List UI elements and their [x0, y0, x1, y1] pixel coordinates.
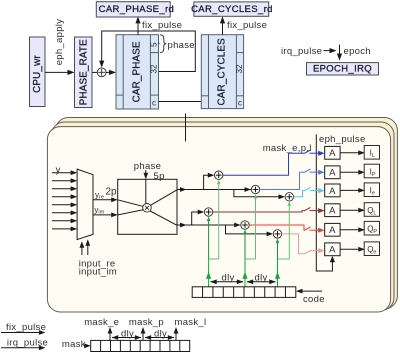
wire I3 to A3 (cyan) — [294, 187, 325, 196]
block CAR_PHASE — [116, 35, 159, 109]
svg-text:dly: dly — [255, 273, 268, 284]
Q branch to adder L — [226, 225, 274, 236]
wire code P to adder I2 — [254, 194, 258, 259]
arrow fix_pulse — [1, 330, 45, 335]
adder (+) — [97, 68, 106, 77]
code tap E stub — [206, 259, 211, 287]
output register QP — [364, 221, 379, 235]
wire multiplier to I out — [151, 190, 178, 206]
svg-text:eph_apply: eph_apply — [54, 19, 65, 66]
adder Q3 — [273, 230, 281, 238]
svg-text:code: code — [303, 294, 325, 305]
feedback wire 32 to adder — [99, 31, 195, 72]
svg-text:A: A — [329, 168, 336, 179]
wire y_re into mixer — [93, 197, 118, 202]
arrow mask into register — [84, 343, 91, 348]
svg-text:c: c — [152, 98, 156, 107]
adder I3 — [285, 193, 293, 201]
code delay measure E-P — [210, 279, 243, 284]
svg-text:dly: dly — [154, 329, 167, 340]
accumulator A6 — [325, 243, 340, 256]
output register Qe — [364, 242, 379, 256]
I branch to adder E — [204, 173, 215, 190]
svg-text:CAR_PHASE_rd: CAR_PHASE_rd — [99, 4, 174, 15]
input_re arrow — [80, 241, 85, 255]
svg-text:CAR_CYCLES_rd: CAR_CYCLES_rd — [191, 4, 273, 15]
svg-text:5: 5 — [150, 42, 159, 47]
block CAR_CYCLES — [201, 35, 244, 109]
svg-text:y: y — [56, 164, 61, 175]
svg-text:A: A — [329, 225, 336, 236]
code tap P jog — [245, 258, 256, 260]
block EPOCH_IRQ — [307, 63, 379, 75]
code tap L jog — [278, 258, 290, 260]
arrow phase down — [143, 170, 148, 179]
wire code E to adder Q1 — [207, 217, 211, 260]
wire A4 to QL — [340, 208, 365, 213]
y input bus arrows — [52, 170, 77, 231]
block CAR_CYCLES_rd — [191, 2, 273, 16]
svg-text:phase: phase — [168, 40, 195, 51]
wire code P to adder Q2 — [243, 230, 247, 260]
svg-text:c: c — [238, 98, 242, 107]
svg-text:dly: dly — [222, 273, 235, 284]
svg-text:A: A — [329, 206, 336, 217]
I wire main — [177, 187, 251, 192]
adder Q2 — [241, 221, 249, 229]
svg-text:mask_e,p,l: mask_e,p,l — [263, 143, 312, 154]
Q wire main — [177, 223, 241, 228]
wire code L to adder I3 — [288, 201, 292, 259]
wire c port CAR_PHASE to CAR_CYCLES — [159, 101, 202, 103]
code tap L stub — [275, 259, 280, 287]
output register QL — [364, 203, 379, 217]
wire I2 to A2 (medium blue) — [260, 169, 325, 190]
wire A3 to Ie — [340, 188, 365, 193]
wire Q1 to A4 (maroon) — [213, 207, 325, 213]
code delay measure P-L — [247, 279, 276, 284]
block CPU_wr — [30, 37, 46, 107]
svg-text:mask_p: mask_p — [129, 317, 164, 328]
mask shift register — [91, 340, 190, 351]
wire A5 to QP — [340, 227, 365, 232]
wire code input — [296, 289, 322, 294]
accumulator A1 — [325, 146, 340, 159]
output register IL — [364, 146, 379, 160]
wire fix_pulse up to CAR_PHASE_rd — [135, 16, 140, 34]
wire A1 to IL — [340, 150, 365, 155]
code tap E jog — [209, 258, 219, 260]
card front — [47, 127, 390, 312]
wire Q2 to A5 (red) — [249, 225, 324, 233]
wire A2 to IP — [340, 170, 365, 175]
svg-text:input_im: input_im — [79, 267, 117, 278]
adder I2 — [251, 185, 259, 193]
multiplier — [143, 204, 152, 213]
accumulator A3 — [325, 184, 340, 197]
wire im into multiplier — [118, 210, 143, 215]
brace and label phase (5-bit port) — [159, 35, 195, 53]
card back — [55, 118, 397, 309]
mask delay measure E-P — [112, 335, 142, 340]
adder Q1 — [204, 208, 212, 216]
arrow irq_pulse — [1, 345, 45, 350]
wire I1 to A1 (blue) — [223, 150, 325, 175]
svg-text:32: 32 — [235, 64, 244, 73]
svg-text:A: A — [329, 245, 336, 256]
svg-text:CAR_PHASE: CAR_PHASE — [131, 41, 142, 102]
wire code E to adder I1 — [217, 180, 221, 259]
svg-text:fix_pulse: fix_pulse — [142, 20, 182, 31]
wire re into multiplier — [118, 200, 143, 207]
mask tap L arrow — [174, 327, 179, 340]
svg-text:A: A — [329, 148, 336, 159]
wire epoch down into EPOCH_IRQ — [337, 45, 342, 61]
Q branch to adder E — [192, 210, 205, 225]
wire phase to multiplier — [145, 179, 147, 203]
svg-text:CAR_CYCLES: CAR_CYCLES — [217, 38, 228, 106]
svg-text:eph_pulse: eph_pulse — [319, 134, 366, 145]
wire phase into correlator card — [185, 114, 187, 142]
wire y_im into mixer — [93, 213, 118, 218]
mask delay measure P-L — [145, 335, 175, 340]
card middle — [51, 122, 394, 311]
wire PHASE_RATE to adder — [92, 71, 97, 73]
svg-text:PHASE_RATE: PHASE_RATE — [79, 39, 90, 105]
wire CPU_wr to PHASE_RATE — [45, 70, 75, 75]
svg-text:2p: 2p — [106, 187, 118, 198]
I branch to adder L — [234, 190, 285, 200]
accumulator A5 — [325, 223, 340, 236]
mask tap E arrow — [108, 327, 113, 340]
svg-text:mask_l: mask_l — [175, 317, 207, 328]
wire A6 to Qe — [340, 247, 365, 252]
block PHASE_RATE — [75, 37, 93, 108]
svg-text:EPOCH_IRQ: EPOCH_IRQ — [313, 64, 372, 75]
wire multiplier to Q out — [150, 211, 177, 225]
wire irq_pulse to epoch node — [324, 48, 337, 53]
adder I1 — [215, 171, 223, 179]
svg-text:dly: dly — [121, 329, 134, 340]
svg-text:5p: 5p — [154, 171, 165, 182]
svg-text:irq_pulse: irq_pulse — [281, 46, 322, 57]
wire Q3 to A6 (pink) — [282, 234, 325, 254]
accumulator A2 — [325, 166, 340, 179]
block CAR_PHASE_rd — [96, 2, 174, 17]
mask tap P arrow — [141, 327, 146, 340]
input mux trapezoid — [77, 169, 93, 240]
svg-text:fix_pulse: fix_pulse — [227, 20, 267, 31]
svg-text:CPU_wr: CPU_wr — [32, 55, 43, 93]
mixer box — [118, 179, 177, 234]
accumulator A4 — [325, 204, 340, 217]
output register Ie — [364, 183, 379, 197]
input_im arrow — [85, 239, 90, 255]
svg-text:32: 32 — [150, 64, 159, 73]
wire fix_pulse up to CAR_CYCLES_rd — [220, 16, 225, 34]
svg-text:mask_e: mask_e — [84, 317, 119, 328]
svg-text:mask: mask — [62, 339, 86, 350]
output register IP — [364, 164, 379, 178]
svg-text:epoch: epoch — [344, 46, 371, 57]
wire adder to CAR_PHASE — [106, 70, 116, 75]
code shift register — [192, 287, 296, 298]
wire eph_pulse down to A6 — [316, 134, 335, 271]
wire code L to adder Q3 — [276, 238, 280, 259]
code tap P stub — [242, 259, 247, 287]
svg-text:A: A — [329, 186, 336, 197]
